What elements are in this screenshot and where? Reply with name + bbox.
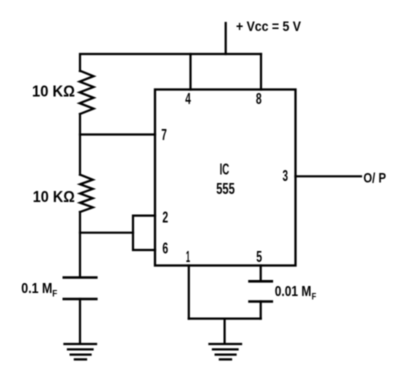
wire top supply bus: [80, 54, 261, 71]
svg-text:2: 2: [162, 209, 168, 226]
ground GND1: [65, 344, 97, 359]
IC name label: [216, 161, 235, 198]
label C1 value 0.1 MF: [21, 280, 57, 299]
svg-text:555: 555: [216, 181, 235, 198]
wire pin 3 output: [296, 175, 362, 177]
svg-text:7: 7: [161, 127, 167, 144]
svg-text:0.1 M: 0.1 M: [21, 280, 52, 297]
wire C2 lower lead: [260, 302, 262, 319]
op-amp U1 IC 555 box: [155, 90, 296, 266]
svg-text:1: 1: [186, 249, 190, 266]
svg-text:5: 5: [256, 249, 262, 266]
label C2 value 0.01 MF: [275, 284, 317, 302]
svg-text:10 KΩ: 10 KΩ: [33, 189, 75, 206]
svg-text:0.01 M: 0.01 M: [275, 284, 312, 300]
wire pin 4 drop: [189, 54, 191, 90]
wire pin 5 drop: [260, 266, 262, 282]
svg-text:6: 6: [162, 240, 168, 257]
svg-text:F: F: [312, 291, 317, 301]
svg-text:+ Vcc = 5 V: + Vcc = 5 V: [236, 18, 302, 34]
svg-text:8: 8: [256, 91, 262, 108]
svg-text:IC: IC: [220, 161, 230, 178]
wire pin 7 connection: [80, 133, 155, 135]
svg-text:F: F: [52, 289, 57, 299]
svg-text:4: 4: [185, 91, 191, 108]
wire rail between R1 and R2: [79, 114, 81, 175]
wire ground drop: [224, 319, 226, 344]
wire bottom tie: [189, 318, 261, 320]
svg-text:O/ P: O/ P: [363, 170, 386, 186]
resistor R1 10 KΩ: [80, 71, 94, 114]
capacitor C1 0.1 MF: [64, 278, 97, 300]
wire C1 lower lead: [79, 299, 81, 344]
wire trigger-threshold feed: [80, 232, 133, 234]
wire rail R2 down to C1: [79, 212, 81, 276]
svg-text:10 KΩ: 10 KΩ: [32, 84, 75, 101]
wire Vcc supply stub: [225, 23, 227, 54]
ground GND2: [210, 344, 242, 359]
capacitor C2 0.01 MF: [250, 281, 272, 301]
wire pin 1 drop: [188, 266, 190, 319]
wire pins 2-6 tie bracket: [133, 216, 155, 250]
resistor R2 10 KΩ: [80, 175, 93, 212]
svg-text:3: 3: [283, 168, 289, 185]
wire pin 8 drop: [260, 54, 262, 90]
